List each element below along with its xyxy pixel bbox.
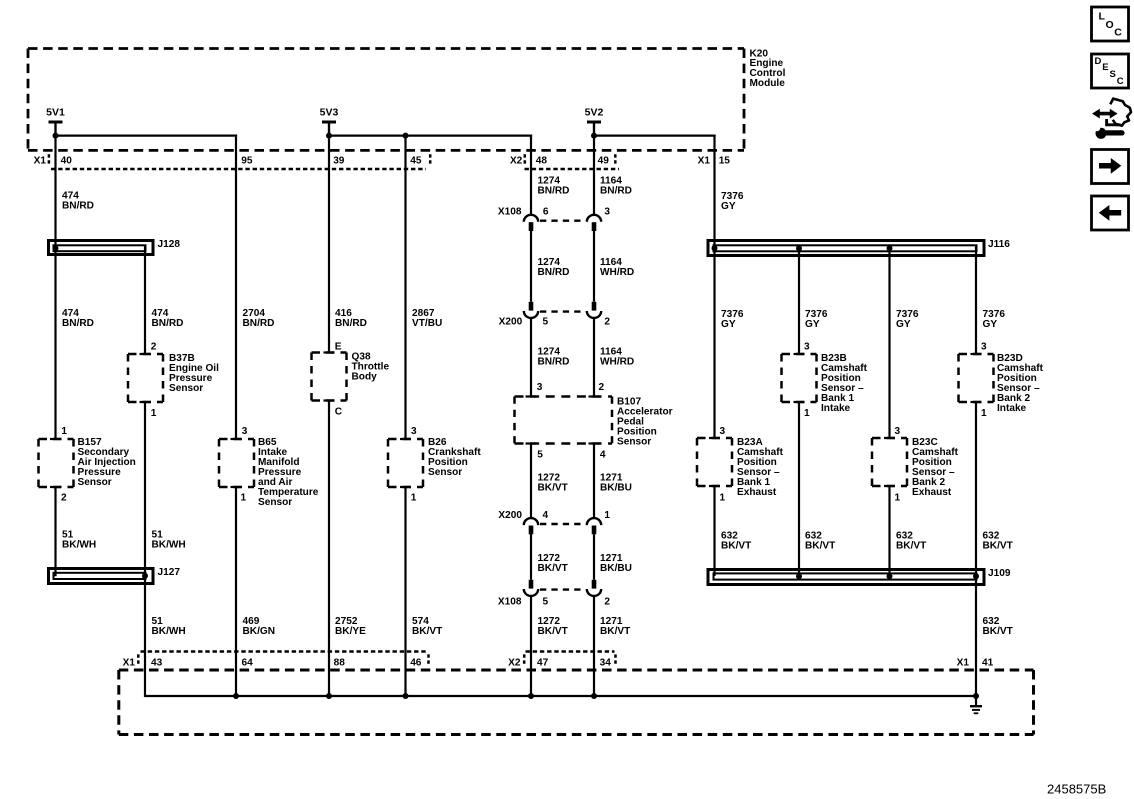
svg-text:3: 3 bbox=[720, 426, 726, 437]
svg-text:Sensor: Sensor bbox=[78, 477, 112, 488]
svg-text:3: 3 bbox=[981, 342, 987, 353]
sensor B65 Intake Manifold Pressure and Air Temperature Sensor bbox=[219, 438, 254, 441]
wire 5V3 bus to pins 39 45 48 bbox=[328, 135, 532, 137]
in-line connector X108 pin 5 bbox=[529, 580, 534, 589]
svg-text:X2: X2 bbox=[508, 657, 521, 668]
svg-text:1: 1 bbox=[895, 493, 901, 504]
connector group separator (bottom) bbox=[137, 654, 140, 666]
svg-text:1: 1 bbox=[241, 493, 247, 504]
in-line connector X200 pin 5 bbox=[529, 302, 534, 311]
svg-text:1: 1 bbox=[604, 510, 610, 521]
sensor B23B Camshaft Position Sensor Bank 1 Intake bbox=[782, 353, 817, 356]
wire 1271 BK/BU X200 to X108 bbox=[593, 534, 595, 580]
wire 2752 BK/YE Q38 to ground bus bbox=[328, 401, 330, 698]
svg-text:Sensor: Sensor bbox=[169, 383, 203, 394]
connector group separator bbox=[48, 154, 51, 166]
svg-text:GY: GY bbox=[721, 319, 736, 330]
node 5V3 junction bbox=[326, 133, 332, 139]
wire 1274 BN/RD X200 to B107 bbox=[530, 318, 532, 397]
wire 1271 BK/BU B107 to X200 bbox=[593, 444, 595, 519]
sensor B23D Camshaft Position Sensor Bank 2 Intake bbox=[959, 353, 994, 356]
icon next arrow button bbox=[1092, 150, 1129, 184]
connector face dotted line X1 group (bottom) bbox=[141, 650, 429, 652]
svg-text:41: 41 bbox=[982, 657, 994, 668]
node J116 splice junction right bbox=[887, 245, 893, 251]
svg-text:GY: GY bbox=[805, 319, 820, 330]
connector face dotted line X1 group bbox=[51, 168, 426, 170]
svg-text:39: 39 bbox=[333, 156, 345, 167]
svg-text:E: E bbox=[1102, 62, 1108, 73]
splice pack J116 bbox=[708, 241, 984, 256]
connector group separator bbox=[614, 154, 617, 166]
svg-text:5V3: 5V3 bbox=[320, 106, 339, 118]
svg-text:BK/YE: BK/YE bbox=[335, 626, 366, 637]
splice pack J127 bbox=[49, 569, 154, 584]
svg-text:Sensor: Sensor bbox=[617, 437, 651, 448]
svg-text:X1: X1 bbox=[34, 156, 47, 167]
svg-text:X1: X1 bbox=[123, 657, 136, 668]
svg-text:BN/RD: BN/RD bbox=[538, 267, 570, 278]
node ground bus junction pin 34 bbox=[591, 693, 597, 699]
wire 7376 GY J116 to B23B bbox=[798, 246, 800, 354]
sensor B23A Camshaft Position Sensor Bank 1 Exhaust bbox=[697, 437, 732, 440]
svg-text:X200: X200 bbox=[499, 317, 523, 328]
svg-text:BK/VT: BK/VT bbox=[983, 626, 1014, 637]
svg-text:2: 2 bbox=[604, 317, 610, 328]
svg-text:2458575B: 2458575B bbox=[1047, 781, 1106, 796]
svg-text:3: 3 bbox=[804, 342, 810, 353]
connector group separator (bottom) bbox=[614, 654, 617, 666]
wire 5V2 bus to pins 49 and 15 bbox=[593, 135, 716, 137]
svg-text:J116: J116 bbox=[988, 239, 1010, 250]
svg-text:Sensor: Sensor bbox=[258, 497, 292, 508]
svg-text:BK/BU: BK/BU bbox=[600, 482, 632, 493]
svg-text:34: 34 bbox=[600, 657, 612, 668]
svg-text:2: 2 bbox=[604, 597, 610, 608]
svg-text:1: 1 bbox=[804, 408, 810, 419]
svg-text:J128: J128 bbox=[158, 239, 181, 250]
svg-text:Intake: Intake bbox=[821, 403, 851, 414]
wire 1274 BN/RD pin 48 to X108 bbox=[530, 135, 532, 215]
svg-text:45: 45 bbox=[410, 156, 422, 167]
ground distribution dashed box bbox=[119, 669, 1034, 672]
node 5V2 junction bbox=[591, 133, 597, 139]
svg-text:VT/BU: VT/BU bbox=[412, 318, 442, 329]
node J116 splice junction mid bbox=[796, 245, 802, 251]
svg-text:BN/RD: BN/RD bbox=[62, 201, 94, 212]
sensor B37B Engine Oil Pressure Sensor bbox=[128, 353, 163, 356]
node J109 splice junction mid-right bbox=[887, 573, 893, 579]
svg-text:1: 1 bbox=[411, 493, 417, 504]
svg-text:BK/VT: BK/VT bbox=[896, 541, 927, 552]
node J127 splice junction bbox=[142, 573, 148, 579]
node 5V1 junction bbox=[53, 133, 59, 139]
svg-text:1: 1 bbox=[981, 408, 987, 419]
svg-text:88: 88 bbox=[334, 657, 346, 668]
svg-text:WH/RD: WH/RD bbox=[600, 267, 634, 278]
svg-text:BN/RD: BN/RD bbox=[335, 318, 367, 329]
svg-text:Exhaust: Exhaust bbox=[737, 487, 777, 498]
svg-text:Sensor: Sensor bbox=[428, 467, 462, 478]
svg-text:O: O bbox=[1106, 19, 1114, 31]
svg-text:1: 1 bbox=[151, 408, 157, 419]
icon DESC button bbox=[1092, 54, 1129, 88]
wire 1274 BN/RD X108 to X200 bbox=[530, 231, 532, 302]
sensor B157 Secondary Air Injection Pressure Sensor bbox=[39, 438, 74, 441]
ground G103 symbol bbox=[970, 705, 982, 707]
icon connector repair (arrows and wrench) bbox=[1110, 99, 1131, 126]
svg-text:3: 3 bbox=[604, 207, 610, 218]
node ground bus junction pin 47 bbox=[528, 693, 534, 699]
svg-text:GY: GY bbox=[983, 319, 998, 330]
svg-text:BK/VT: BK/VT bbox=[538, 563, 569, 574]
svg-text:BN/RD: BN/RD bbox=[152, 318, 184, 329]
svg-text:BK/VT: BK/VT bbox=[721, 541, 752, 552]
wire 474 BN/RD J128 to B37B bbox=[144, 246, 146, 354]
svg-text:BK/VT: BK/VT bbox=[983, 541, 1014, 552]
svg-text:95: 95 bbox=[241, 156, 253, 167]
connector X108 dashed tie (top) bbox=[540, 219, 586, 221]
svg-text:BN/RD: BN/RD bbox=[243, 318, 275, 329]
sensor B26 Crankshaft Position Sensor bbox=[388, 438, 423, 441]
wire 7376 GY J116 to B23D bbox=[975, 246, 977, 354]
wire 1164 WH/RD X108 to X200 bbox=[593, 231, 595, 302]
svg-text:X200: X200 bbox=[498, 510, 522, 521]
svg-text:GY: GY bbox=[896, 319, 911, 330]
svg-text:47: 47 bbox=[537, 657, 549, 668]
wire 51 BK/WH B37B to ground bus via J127 and pin 43 bbox=[144, 402, 146, 697]
svg-text:BK/GN: BK/GN bbox=[243, 626, 276, 637]
ground bus wire bbox=[145, 695, 976, 697]
in-line connector X200 pin 1 bbox=[587, 518, 601, 525]
svg-text:BK/VT: BK/VT bbox=[600, 626, 631, 637]
svg-text:3: 3 bbox=[895, 426, 901, 437]
svg-text:Intake: Intake bbox=[997, 403, 1027, 414]
svg-text:4: 4 bbox=[543, 510, 549, 521]
svg-text:C: C bbox=[335, 407, 343, 418]
svg-text:BK/VT: BK/VT bbox=[538, 482, 569, 493]
wire 1272 BK/VT X108 to ground bus bbox=[530, 596, 532, 697]
wire 416 BN/RD 5V3 to Q38 bbox=[328, 122, 330, 353]
wire 574 BK/VT B26 to ground bus bbox=[404, 487, 406, 697]
svg-text:BN/RD: BN/RD bbox=[538, 186, 570, 197]
wire 1164 BN/RD pin 49 to X108 bbox=[593, 122, 595, 215]
node ground bus junction pin 64 bbox=[233, 693, 239, 699]
in-line connector X108 pin 3 bbox=[587, 215, 601, 222]
node ground bus junction pin 41 bbox=[973, 693, 979, 699]
svg-text:BN/RD: BN/RD bbox=[538, 357, 570, 368]
wire 7376 GY pin 15 to B23A via J116 bbox=[713, 135, 715, 438]
svg-text:Exhaust: Exhaust bbox=[912, 487, 952, 498]
wire 1164 WH/RD X200 to B107 bbox=[593, 318, 595, 397]
node J116 splice junction left bbox=[712, 245, 718, 251]
svg-text:J109: J109 bbox=[988, 568, 1011, 579]
svg-text:BK/WH: BK/WH bbox=[62, 540, 96, 551]
node ground bus junction pin 46 bbox=[403, 693, 409, 699]
wire 1271 BK/VT X108 to ground bus bbox=[593, 596, 595, 697]
icon LOC button bbox=[1092, 7, 1129, 41]
in-line connector X108 pin 2 bbox=[592, 580, 597, 589]
wire 632 BK/VT B23B to J109 bbox=[798, 402, 800, 576]
node ground bus junction pin 88 bbox=[326, 693, 332, 699]
svg-text:5: 5 bbox=[543, 597, 549, 608]
splice pack J109 bbox=[708, 570, 984, 585]
connector X108 dashed tie (row 4) bbox=[540, 588, 586, 590]
node J109 splice junction mid-left bbox=[796, 573, 802, 579]
svg-text:GY: GY bbox=[721, 201, 736, 212]
wire 7376 GY J116 to B23C bbox=[888, 246, 890, 438]
svg-text:X1: X1 bbox=[698, 156, 711, 167]
in-line connector X200 pin 4 bbox=[524, 518, 538, 525]
svg-text:BK/VT: BK/VT bbox=[412, 626, 443, 637]
node J128 splice junction bbox=[53, 245, 59, 251]
svg-text:X1: X1 bbox=[957, 657, 970, 668]
svg-text:4: 4 bbox=[600, 450, 606, 461]
wire 51 BK/WH B157 to J127 bbox=[54, 487, 56, 576]
in-line connector X200 pin 2 bbox=[592, 302, 597, 311]
svg-text:6: 6 bbox=[543, 207, 549, 218]
ECM bottom edge / connector row line bbox=[28, 149, 744, 152]
svg-text:15: 15 bbox=[719, 156, 731, 167]
svg-text:3: 3 bbox=[537, 382, 543, 393]
connector group separator (bottom) bbox=[523, 654, 526, 666]
wire 1272 BK/VT X200 to X108 bbox=[530, 534, 532, 580]
ECM K20 module dashed box outline bbox=[28, 47, 744, 50]
svg-text:3: 3 bbox=[242, 426, 248, 437]
svg-text:Body: Body bbox=[352, 372, 378, 383]
svg-text:BK/VT: BK/VT bbox=[805, 541, 836, 552]
svg-text:BK/BU: BK/BU bbox=[600, 563, 632, 574]
svg-text:49: 49 bbox=[598, 156, 610, 167]
in-line connector X108 pin 6 bbox=[524, 215, 538, 222]
throttle body Q38 bbox=[312, 351, 347, 354]
wire 1272 BK/VT B107 to X200 bbox=[530, 444, 532, 519]
svg-text:64: 64 bbox=[242, 657, 254, 668]
icon back arrow button bbox=[1092, 196, 1129, 230]
svg-text:C: C bbox=[1117, 76, 1124, 87]
svg-text:2: 2 bbox=[61, 493, 67, 504]
svg-text:X108: X108 bbox=[498, 207, 522, 218]
svg-text:D: D bbox=[1095, 56, 1102, 67]
svg-text:BK/WH: BK/WH bbox=[152, 540, 186, 551]
svg-text:BK/VT: BK/VT bbox=[538, 626, 569, 637]
svg-text:WH/RD: WH/RD bbox=[600, 357, 634, 368]
splice pack J128 bbox=[49, 241, 154, 255]
wire 5V1 bus to pins 40 and 95 bbox=[54, 135, 237, 137]
svg-text:J127: J127 bbox=[158, 567, 181, 578]
svg-text:5V2: 5V2 bbox=[585, 106, 604, 118]
node J109 splice junction right bbox=[973, 573, 979, 579]
svg-text:L: L bbox=[1099, 11, 1106, 23]
connector group separator bbox=[429, 154, 432, 166]
svg-text:5: 5 bbox=[543, 317, 549, 328]
svg-text:BN/RD: BN/RD bbox=[62, 318, 94, 329]
connector face dotted line X2 group (bottom) bbox=[526, 650, 615, 652]
svg-text:3: 3 bbox=[411, 426, 417, 437]
svg-text:40: 40 bbox=[61, 156, 73, 167]
sensor B107 Accelerator Pedal Position Sensor bbox=[515, 395, 613, 398]
wire 632 BK/VT B23C to J109 bbox=[888, 486, 890, 576]
svg-text:E: E bbox=[335, 342, 342, 353]
svg-text:48: 48 bbox=[536, 156, 548, 167]
node pin-45 branch junction bbox=[403, 133, 409, 139]
wire 2704 BN/RD pin 95 to B65 bbox=[235, 135, 237, 439]
wire 2867 VT/BU pin 45 to B26 bbox=[404, 135, 406, 439]
connector X200 dashed tie (row 3) bbox=[540, 523, 586, 525]
connector X200 dashed tie (row 2) bbox=[540, 310, 586, 312]
wire 632 BK/VT B23D to J109 and ground bbox=[975, 402, 977, 706]
connector face dotted line X2 group bbox=[525, 168, 620, 170]
svg-text:2: 2 bbox=[151, 342, 157, 353]
svg-text:S: S bbox=[1110, 69, 1116, 80]
wire 474 BN/RD pin 40 to B157 via J128 bbox=[54, 122, 56, 439]
connector group separator (bottom) bbox=[427, 654, 430, 666]
svg-text:43: 43 bbox=[151, 657, 163, 668]
connector group separator bbox=[524, 154, 527, 166]
svg-text:Module: Module bbox=[750, 78, 786, 89]
wire 632 BK/VT B23A to J109 bbox=[713, 486, 715, 576]
svg-text:BN/RD: BN/RD bbox=[600, 186, 632, 197]
svg-text:X108: X108 bbox=[498, 597, 522, 608]
svg-text:5: 5 bbox=[537, 450, 543, 461]
svg-text:2: 2 bbox=[599, 382, 605, 393]
svg-text:C: C bbox=[1114, 27, 1122, 39]
svg-text:5V1: 5V1 bbox=[46, 106, 65, 118]
wire 469 BK/GN B65 to ground bus bbox=[235, 487, 237, 697]
svg-text:46: 46 bbox=[410, 657, 422, 668]
sensor B23C Camshaft Position Sensor Bank 2 Exhaust bbox=[872, 437, 907, 440]
svg-text:BK/WH: BK/WH bbox=[152, 626, 186, 637]
svg-text:X2: X2 bbox=[510, 156, 523, 167]
svg-text:1: 1 bbox=[61, 426, 67, 437]
svg-text:1: 1 bbox=[720, 493, 726, 504]
